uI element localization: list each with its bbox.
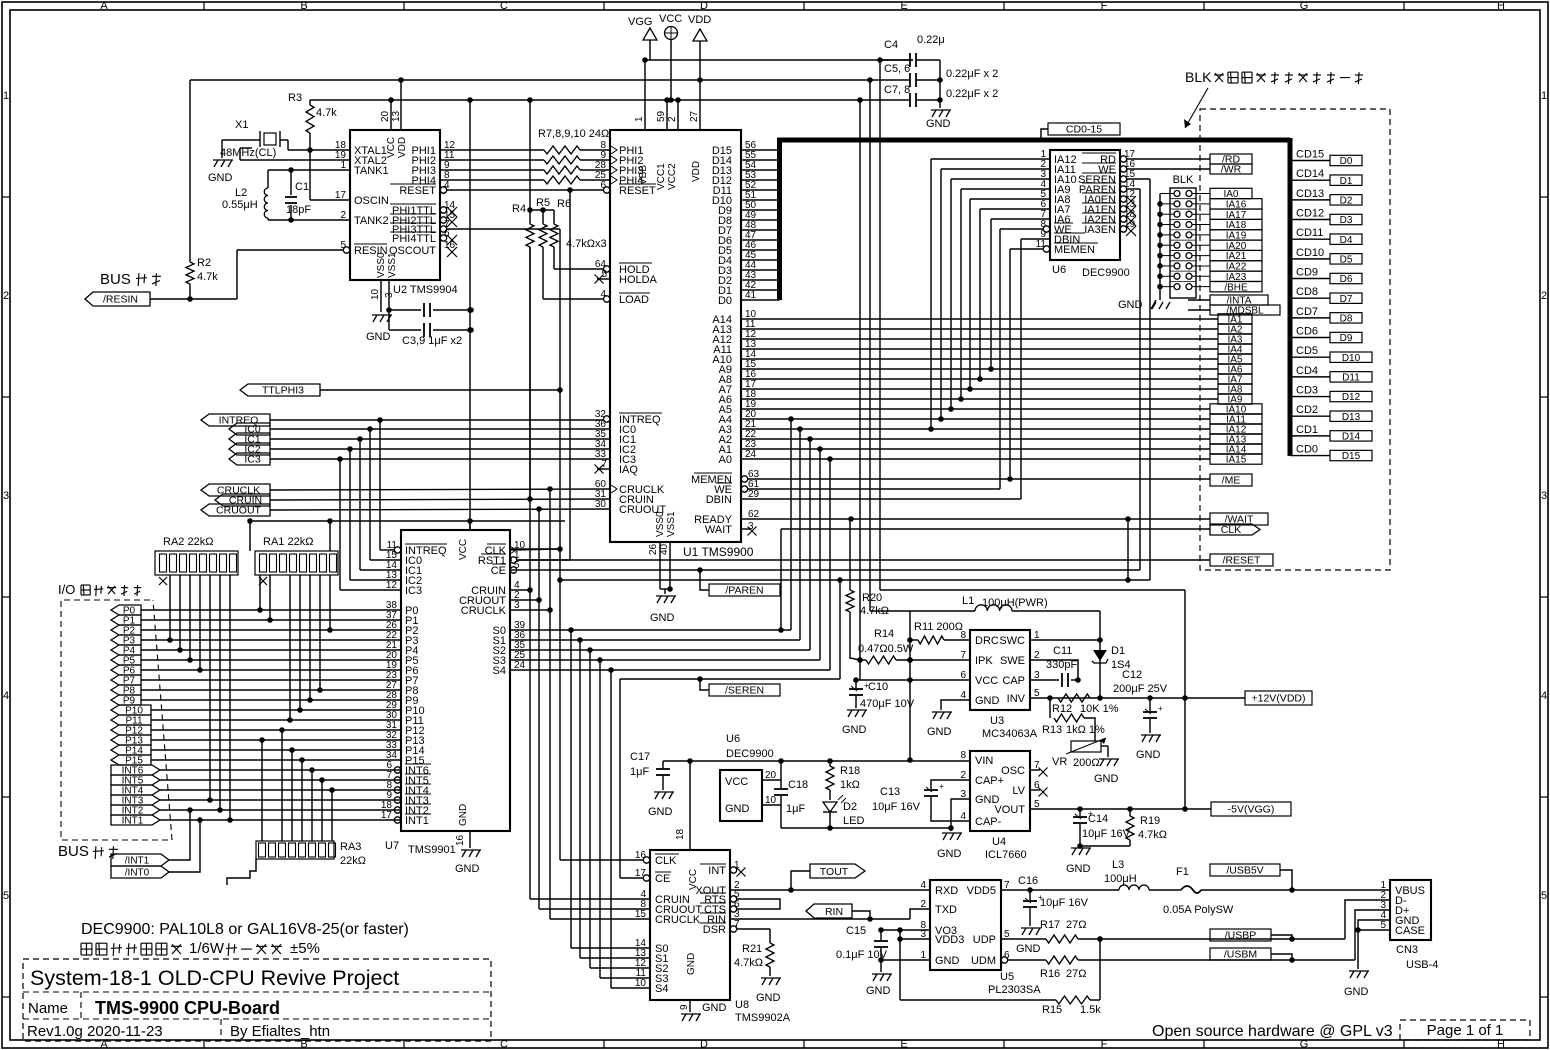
svg-text:U1 TMS9900: U1 TMS9900 bbox=[683, 545, 754, 559]
svg-text:CAP-: CAP- bbox=[975, 816, 1002, 828]
svg-text:C7, 8: C7, 8 bbox=[884, 84, 910, 96]
svg-text:10K 1%: 10K 1% bbox=[1080, 703, 1119, 715]
svg-text:U4: U4 bbox=[992, 836, 1006, 848]
svg-text:C16: C16 bbox=[1018, 875, 1038, 887]
svg-text:TANK2: TANK2 bbox=[354, 215, 389, 227]
svg-text:TTLPHI3: TTLPHI3 bbox=[262, 385, 304, 397]
svg-text:RESET: RESET bbox=[619, 185, 656, 197]
svg-text:10: 10 bbox=[765, 795, 777, 806]
svg-text:R6: R6 bbox=[557, 198, 571, 210]
svg-text:0.1μF 10V: 0.1μF 10V bbox=[836, 949, 888, 961]
svg-text:A: A bbox=[100, 0, 108, 12]
svg-text:10μF 16V: 10μF 16V bbox=[872, 801, 921, 813]
svg-text:U7: U7 bbox=[385, 840, 399, 852]
svg-text:VSS0: VSS0 bbox=[655, 511, 666, 537]
svg-text:VDD5: VDD5 bbox=[967, 885, 996, 897]
svg-text:D1: D1 bbox=[1111, 645, 1125, 657]
svg-text:VCC: VCC bbox=[975, 675, 998, 687]
svg-text:4: 4 bbox=[1541, 690, 1547, 702]
svg-text:GND: GND bbox=[842, 724, 867, 736]
svg-text:4.7kΩ: 4.7kΩ bbox=[860, 605, 889, 617]
svg-text:0.22μF x 2: 0.22μF x 2 bbox=[946, 88, 998, 100]
svg-text:TOUT: TOUT bbox=[820, 866, 849, 878]
svg-text:R11 200Ω: R11 200Ω bbox=[914, 621, 963, 633]
svg-text:UDP: UDP bbox=[973, 934, 996, 946]
svg-text:RESET: RESET bbox=[399, 185, 436, 197]
svg-text:WAIT: WAIT bbox=[705, 524, 732, 536]
svg-text:4: 4 bbox=[600, 289, 606, 300]
svg-text:20: 20 bbox=[380, 110, 391, 122]
svg-text:12: 12 bbox=[386, 580, 398, 591]
svg-text:R15: R15 bbox=[1042, 1004, 1062, 1016]
svg-text:10: 10 bbox=[370, 288, 381, 300]
svg-text:X1: X1 bbox=[235, 119, 248, 131]
svg-text:GND: GND bbox=[926, 118, 951, 130]
svg-text:D8: D8 bbox=[1340, 313, 1353, 324]
svg-text:C5, 6: C5, 6 bbox=[884, 63, 910, 75]
svg-text:48MHz(CL): 48MHz(CL) bbox=[220, 147, 276, 159]
svg-text:+: + bbox=[939, 782, 944, 791]
svg-text:/MDSBL: /MDSBL bbox=[1226, 306, 1264, 317]
svg-text:0.05A PolySW: 0.05A PolySW bbox=[1163, 904, 1234, 916]
svg-text:By Efialtes_htn: By Efialtes_htn bbox=[230, 1023, 330, 1040]
svg-text:VR: VR bbox=[1052, 756, 1067, 768]
svg-text:27Ω: 27Ω bbox=[1066, 968, 1086, 980]
svg-text:VCC2: VCC2 bbox=[667, 163, 678, 190]
svg-text:D12: D12 bbox=[1342, 392, 1361, 403]
svg-text:S4: S4 bbox=[493, 665, 506, 677]
svg-text:4.7kΩx3: 4.7kΩx3 bbox=[566, 238, 607, 250]
svg-text:RA1 22kΩ: RA1 22kΩ bbox=[263, 536, 313, 548]
svg-text:CASE: CASE bbox=[1395, 925, 1425, 937]
svg-text:7: 7 bbox=[960, 650, 966, 661]
svg-text:GND: GND bbox=[366, 331, 391, 343]
svg-text:CD7: CD7 bbox=[1296, 306, 1318, 318]
svg-text:GND: GND bbox=[1016, 943, 1041, 955]
svg-text:18pF: 18pF bbox=[286, 204, 311, 216]
svg-text:DSR: DSR bbox=[703, 924, 726, 936]
svg-text:VSS1: VSS1 bbox=[666, 511, 677, 537]
svg-text:U3: U3 bbox=[990, 715, 1004, 727]
svg-text:200μF 25V: 200μF 25V bbox=[1113, 683, 1168, 695]
svg-text:59: 59 bbox=[656, 110, 667, 122]
svg-text:R13: R13 bbox=[1042, 724, 1062, 736]
svg-text:4.7k: 4.7k bbox=[197, 271, 218, 283]
svg-text:GND: GND bbox=[458, 804, 469, 826]
svg-text:MC34063A: MC34063A bbox=[982, 728, 1038, 740]
svg-text:/ME: /ME bbox=[1222, 475, 1241, 487]
svg-text:BLK: BLK bbox=[1173, 174, 1194, 186]
svg-text:VSS0: VSS0 bbox=[376, 252, 387, 278]
svg-text:TMS9901: TMS9901 bbox=[408, 844, 456, 856]
svg-text:2: 2 bbox=[3, 290, 9, 302]
svg-text:1/6W: 1/6W bbox=[189, 940, 225, 957]
svg-text:CD13: CD13 bbox=[1296, 188, 1324, 200]
svg-text:RXD: RXD bbox=[935, 885, 958, 897]
svg-text:GND: GND bbox=[1344, 986, 1369, 998]
svg-text:F1: F1 bbox=[1176, 866, 1189, 878]
svg-text:GND: GND bbox=[725, 803, 750, 815]
svg-text:VDD: VDD bbox=[397, 137, 408, 158]
svg-text:D2: D2 bbox=[843, 801, 857, 813]
svg-text:200Ω: 200Ω bbox=[1073, 757, 1100, 769]
svg-text:VOUT: VOUT bbox=[994, 804, 1025, 816]
svg-text:R20: R20 bbox=[862, 592, 882, 604]
svg-text:1.5k: 1.5k bbox=[1080, 1004, 1101, 1016]
svg-text:D5: D5 bbox=[1340, 254, 1353, 265]
svg-text:1: 1 bbox=[634, 116, 645, 122]
svg-text:VCC: VCC bbox=[458, 539, 469, 560]
svg-text:U2 TMS9904: U2 TMS9904 bbox=[393, 284, 458, 296]
svg-text:CD9: CD9 bbox=[1296, 267, 1318, 279]
svg-text:VCC: VCC bbox=[386, 137, 397, 158]
svg-text:22kΩ: 22kΩ bbox=[340, 855, 366, 867]
svg-text:Rev1.0g 2020-11-23: Rev1.0g 2020-11-23 bbox=[27, 1023, 163, 1040]
svg-text:D7: D7 bbox=[1340, 294, 1353, 305]
svg-text:/USB5V: /USB5V bbox=[1226, 865, 1263, 877]
svg-text:+12V(VDD): +12V(VDD) bbox=[1252, 693, 1306, 705]
svg-text:System-18-1 OLD-CPU Revive Pro: System-18-1 OLD-CPU Revive Project bbox=[30, 966, 399, 990]
svg-text:OSCIN: OSCIN bbox=[354, 195, 389, 207]
svg-text:ICL7660: ICL7660 bbox=[985, 849, 1027, 861]
svg-text:C: C bbox=[500, 0, 508, 12]
svg-text:R5: R5 bbox=[536, 197, 550, 209]
svg-text:LED: LED bbox=[843, 815, 864, 827]
svg-text:INT1: INT1 bbox=[405, 815, 429, 827]
svg-text:GND: GND bbox=[927, 726, 952, 738]
svg-text:D4: D4 bbox=[1340, 235, 1353, 246]
svg-text:BUS: BUS bbox=[58, 843, 89, 860]
svg-text:C12: C12 bbox=[1122, 669, 1142, 681]
svg-text:0.55μH: 0.55μH bbox=[222, 199, 258, 211]
svg-text:F: F bbox=[1101, 1039, 1108, 1050]
svg-text:C17: C17 bbox=[630, 751, 650, 763]
svg-text:IAQ: IAQ bbox=[619, 464, 638, 476]
svg-text:4: 4 bbox=[920, 880, 926, 891]
svg-text:R16: R16 bbox=[1040, 968, 1060, 980]
svg-text:10μF 16V: 10μF 16V bbox=[1040, 897, 1089, 909]
svg-text:100μH: 100μH bbox=[1104, 873, 1137, 885]
svg-text:IC3: IC3 bbox=[405, 585, 422, 597]
svg-text:GND: GND bbox=[702, 1002, 727, 1014]
svg-text:CD6: CD6 bbox=[1296, 326, 1318, 338]
svg-text:LV: LV bbox=[1012, 785, 1025, 797]
svg-text:CD8: CD8 bbox=[1296, 286, 1318, 298]
svg-text:3: 3 bbox=[3, 490, 9, 502]
svg-text:BLK: BLK bbox=[1185, 69, 1212, 85]
svg-text:I/O: I/O bbox=[58, 582, 75, 597]
svg-text:A: A bbox=[100, 1039, 108, 1050]
svg-text:R4: R4 bbox=[512, 203, 526, 215]
svg-text:R7,8,9,10 24Ω: R7,8,9,10 24Ω bbox=[538, 128, 609, 140]
svg-text:/INT0: /INT0 bbox=[125, 868, 150, 879]
svg-text:20: 20 bbox=[765, 770, 777, 781]
svg-text:6: 6 bbox=[960, 670, 966, 681]
svg-text:G: G bbox=[1300, 0, 1309, 12]
svg-text:±5%: ±5% bbox=[290, 940, 320, 957]
svg-text:D11: D11 bbox=[1342, 372, 1360, 383]
svg-text:L3: L3 bbox=[1112, 859, 1124, 871]
svg-text:D: D bbox=[700, 0, 708, 12]
svg-text:R17: R17 bbox=[1040, 919, 1060, 931]
svg-text:470μF 10V: 470μF 10V bbox=[860, 698, 915, 710]
svg-text:CD5: CD5 bbox=[1296, 345, 1318, 357]
svg-text:C18: C18 bbox=[788, 779, 808, 791]
svg-text:0.22μF x 2: 0.22μF x 2 bbox=[946, 68, 998, 80]
svg-text:100μH(PWR): 100μH(PWR) bbox=[982, 597, 1048, 609]
svg-text:CD2: CD2 bbox=[1296, 404, 1318, 416]
svg-text:CE: CE bbox=[655, 873, 670, 885]
svg-text:CD0: CD0 bbox=[1296, 444, 1318, 456]
svg-text:INT: INT bbox=[708, 865, 726, 877]
svg-text:4.7kΩ: 4.7kΩ bbox=[1138, 829, 1167, 841]
svg-text:D0: D0 bbox=[718, 295, 732, 307]
svg-text:D10: D10 bbox=[1342, 353, 1361, 364]
svg-text:L2: L2 bbox=[235, 187, 247, 199]
svg-text:/USBM: /USBM bbox=[1224, 949, 1257, 961]
svg-text:CD1: CD1 bbox=[1296, 424, 1318, 436]
svg-text:TANK1: TANK1 bbox=[354, 165, 389, 177]
svg-text:INV: INV bbox=[1007, 693, 1026, 705]
svg-text:E: E bbox=[900, 1039, 907, 1050]
svg-text:/SEREN: /SEREN bbox=[725, 685, 764, 697]
svg-text:1kΩ: 1kΩ bbox=[840, 779, 860, 791]
svg-text:27Ω: 27Ω bbox=[1066, 919, 1086, 931]
svg-text:9: 9 bbox=[679, 1004, 690, 1010]
svg-text:2: 2 bbox=[920, 899, 926, 910]
svg-text:CD4: CD4 bbox=[1296, 365, 1318, 377]
svg-text:CRUCLK: CRUCLK bbox=[655, 914, 701, 926]
svg-text:/INT1: /INT1 bbox=[125, 856, 150, 867]
svg-text:GND: GND bbox=[1136, 749, 1161, 761]
svg-text:C4: C4 bbox=[884, 39, 898, 51]
svg-text:13: 13 bbox=[391, 110, 402, 122]
svg-text:IA15: IA15 bbox=[1226, 455, 1247, 466]
svg-text:/USBP: /USBP bbox=[1225, 930, 1257, 942]
svg-text:GND: GND bbox=[935, 955, 960, 967]
svg-text:TXD: TXD bbox=[935, 904, 957, 916]
svg-text:2: 2 bbox=[667, 116, 678, 122]
svg-text:HOLDA: HOLDA bbox=[619, 274, 658, 286]
svg-text:VDD3: VDD3 bbox=[935, 934, 964, 946]
svg-text:D9: D9 bbox=[1340, 333, 1353, 344]
svg-text:VCC: VCC bbox=[659, 13, 682, 25]
svg-text:/BHE: /BHE bbox=[1224, 282, 1248, 293]
svg-text:IPK: IPK bbox=[975, 655, 993, 667]
svg-text:CD15: CD15 bbox=[1296, 149, 1324, 161]
svg-text:MEMEN: MEMEN bbox=[1054, 244, 1095, 256]
svg-text:26: 26 bbox=[648, 543, 659, 555]
svg-text:PL2303SA: PL2303SA bbox=[988, 984, 1041, 996]
svg-text:RA2 22kΩ: RA2 22kΩ bbox=[163, 536, 213, 548]
svg-text:IA3EN: IA3EN bbox=[1084, 224, 1116, 236]
svg-text:CE: CE bbox=[491, 565, 506, 577]
svg-text:5: 5 bbox=[1541, 890, 1547, 902]
svg-text:/RESET: /RESET bbox=[1223, 555, 1262, 567]
svg-text:GND: GND bbox=[648, 806, 673, 818]
svg-text:CD0-15: CD0-15 bbox=[1066, 124, 1102, 136]
svg-text:C3,9 1μF x2: C3,9 1μF x2 bbox=[402, 335, 462, 347]
svg-text:VDD: VDD bbox=[688, 14, 711, 26]
svg-text:SWE: SWE bbox=[1000, 655, 1025, 667]
svg-text:R21: R21 bbox=[742, 943, 762, 955]
svg-text:CLK: CLK bbox=[655, 855, 677, 867]
svg-text:VIN: VIN bbox=[975, 755, 993, 767]
svg-text:A0: A0 bbox=[719, 454, 732, 466]
svg-text:C15: C15 bbox=[846, 925, 866, 937]
svg-text:GND: GND bbox=[208, 172, 233, 184]
svg-text:RIN: RIN bbox=[825, 906, 843, 918]
svg-text:5: 5 bbox=[3, 890, 9, 902]
svg-text:CD10: CD10 bbox=[1296, 247, 1324, 259]
svg-text:LOAD: LOAD bbox=[619, 294, 649, 306]
svg-text:/WR: /WR bbox=[1221, 164, 1242, 176]
svg-text:L1: L1 bbox=[962, 595, 974, 607]
svg-text:1μF: 1μF bbox=[786, 803, 805, 815]
svg-text:U8: U8 bbox=[735, 999, 749, 1011]
svg-text:CD3: CD3 bbox=[1296, 385, 1318, 397]
svg-text:CD14: CD14 bbox=[1296, 168, 1324, 180]
svg-text:2: 2 bbox=[1541, 290, 1547, 302]
svg-text:UDM: UDM bbox=[971, 955, 996, 967]
svg-text:R3: R3 bbox=[288, 92, 302, 104]
svg-text:D0: D0 bbox=[1340, 156, 1353, 167]
svg-text:GND: GND bbox=[1066, 863, 1091, 875]
svg-text:D: D bbox=[700, 1039, 708, 1050]
svg-text:VSS1: VSS1 bbox=[387, 252, 398, 278]
svg-text:R2: R2 bbox=[197, 257, 211, 269]
svg-text:3: 3 bbox=[1541, 490, 1547, 502]
svg-text:1kΩ 1%: 1kΩ 1% bbox=[1066, 724, 1105, 736]
svg-text:GND: GND bbox=[866, 985, 891, 997]
svg-text:H: H bbox=[1497, 0, 1505, 12]
svg-text:U6: U6 bbox=[726, 733, 740, 745]
svg-text:SWC: SWC bbox=[999, 635, 1025, 647]
svg-text:VGG: VGG bbox=[628, 16, 652, 28]
svg-text:1: 1 bbox=[1541, 90, 1547, 102]
svg-text:-5V(VGG): -5V(VGG) bbox=[1228, 804, 1275, 816]
svg-text:4.7k: 4.7k bbox=[316, 107, 337, 119]
svg-text:4.7kΩ: 4.7kΩ bbox=[734, 957, 763, 969]
svg-text:GND: GND bbox=[686, 953, 697, 975]
svg-text:INT1: INT1 bbox=[122, 816, 144, 827]
svg-text:D1: D1 bbox=[1340, 176, 1353, 187]
svg-text:DRC: DRC bbox=[975, 635, 999, 647]
svg-text:DEC9900: DEC9900 bbox=[726, 748, 774, 760]
svg-text:4: 4 bbox=[3, 690, 9, 702]
svg-text:DEC9900: PAL10L8 or GAL16V8-25: DEC9900: PAL10L8 or GAL16V8-25(or faster… bbox=[81, 921, 409, 938]
svg-text:DEC9900: DEC9900 bbox=[1082, 267, 1130, 279]
svg-text:CD11: CD11 bbox=[1296, 227, 1323, 239]
svg-text:D14: D14 bbox=[1342, 431, 1361, 442]
svg-text:GND: GND bbox=[975, 695, 1000, 707]
svg-text:3: 3 bbox=[384, 292, 395, 298]
svg-text:DBIN: DBIN bbox=[706, 494, 732, 506]
svg-text:0.47Ω0.5W: 0.47Ω0.5W bbox=[858, 643, 914, 655]
svg-text:U5: U5 bbox=[1000, 971, 1014, 983]
svg-text:S4: S4 bbox=[655, 983, 668, 995]
svg-text:C14: C14 bbox=[1088, 813, 1108, 825]
svg-text:Page 1 of 1: Page 1 of 1 bbox=[1427, 1022, 1504, 1039]
svg-text:D2: D2 bbox=[1340, 195, 1353, 206]
svg-text:U6: U6 bbox=[1052, 264, 1066, 276]
svg-text:C13: C13 bbox=[880, 786, 900, 798]
svg-text:16: 16 bbox=[455, 834, 466, 846]
svg-text:18: 18 bbox=[675, 828, 686, 840]
svg-text:8: 8 bbox=[960, 750, 966, 761]
svg-text:27: 27 bbox=[689, 110, 700, 122]
svg-text:D6: D6 bbox=[1340, 274, 1353, 285]
svg-text:C10: C10 bbox=[868, 681, 888, 693]
svg-text:/PAREN: /PAREN bbox=[725, 585, 763, 597]
svg-text:1μF: 1μF bbox=[630, 766, 649, 778]
svg-text:C: C bbox=[500, 1039, 508, 1050]
svg-text:IC3: IC3 bbox=[244, 454, 261, 466]
svg-text:+: + bbox=[1158, 704, 1163, 713]
svg-text:R18: R18 bbox=[840, 765, 860, 777]
svg-text:VCC1: VCC1 bbox=[656, 163, 667, 190]
svg-text:RA3: RA3 bbox=[340, 841, 361, 853]
svg-text:10μF 16V: 10μF 16V bbox=[1082, 828, 1131, 840]
svg-text:CLK: CLK bbox=[1221, 524, 1241, 536]
svg-text:Open source hardware @ GPL v3: Open source hardware @ GPL v3 bbox=[1152, 1023, 1393, 1040]
svg-text:8: 8 bbox=[960, 630, 966, 641]
svg-text:D13: D13 bbox=[1342, 412, 1361, 423]
svg-text:VDD: VDD bbox=[691, 161, 702, 182]
svg-text:GND: GND bbox=[937, 848, 962, 860]
svg-text:GND: GND bbox=[1094, 773, 1119, 785]
svg-text:GND: GND bbox=[756, 992, 781, 1004]
svg-text:1: 1 bbox=[3, 90, 9, 102]
svg-text:GND: GND bbox=[455, 863, 480, 875]
svg-text:CAP+: CAP+ bbox=[975, 775, 1004, 787]
svg-text:GND: GND bbox=[1118, 299, 1143, 311]
svg-text:/RESIN: /RESIN bbox=[103, 294, 138, 306]
svg-text:CRUCLK: CRUCLK bbox=[461, 605, 507, 617]
svg-text:GND: GND bbox=[650, 612, 675, 624]
svg-text:D3: D3 bbox=[1340, 215, 1353, 226]
svg-text:Name: Name bbox=[28, 1000, 68, 1017]
svg-text:D15: D15 bbox=[1342, 451, 1361, 462]
svg-text:R14: R14 bbox=[874, 628, 894, 640]
svg-text:TMS-9900 CPU-Board: TMS-9900 CPU-Board bbox=[95, 998, 280, 1018]
svg-text:R12: R12 bbox=[1052, 703, 1072, 715]
svg-text:USB-4: USB-4 bbox=[1406, 959, 1438, 971]
svg-text:BUS: BUS bbox=[100, 271, 131, 288]
svg-text:CAP: CAP bbox=[1002, 675, 1025, 687]
svg-text:VCC: VCC bbox=[725, 776, 748, 788]
svg-text:R19: R19 bbox=[1140, 815, 1160, 827]
svg-text:PHI4TTL: PHI4TTL bbox=[392, 233, 436, 245]
svg-text:OSC: OSC bbox=[1001, 765, 1025, 777]
svg-text:C1: C1 bbox=[295, 181, 309, 193]
svg-text:CN3: CN3 bbox=[1396, 944, 1418, 956]
svg-text:B: B bbox=[300, 0, 307, 12]
svg-text:0.22μ: 0.22μ bbox=[917, 34, 945, 46]
svg-text:CD12: CD12 bbox=[1296, 208, 1324, 220]
svg-text:330pF: 330pF bbox=[1046, 659, 1077, 671]
svg-text:B: B bbox=[300, 1039, 307, 1050]
svg-text:F: F bbox=[1101, 0, 1108, 12]
svg-text:G: G bbox=[1300, 1039, 1309, 1050]
svg-text:CRUOUT: CRUOUT bbox=[216, 505, 261, 517]
svg-text:E: E bbox=[900, 0, 907, 12]
svg-text:TMS9902A: TMS9902A bbox=[735, 1012, 791, 1024]
svg-text:C11: C11 bbox=[1053, 645, 1072, 657]
